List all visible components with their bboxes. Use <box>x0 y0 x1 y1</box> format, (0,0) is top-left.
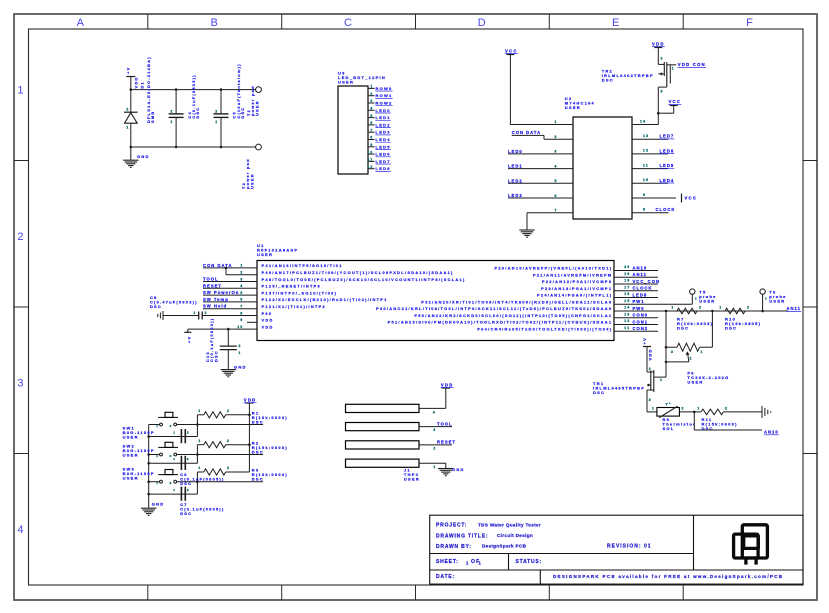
svg-text:PW0: PW0 <box>633 306 645 311</box>
svg-text:USER: USER <box>404 477 420 482</box>
svg-text:DRAWING TITLE:: DRAWING TITLE: <box>436 533 488 539</box>
svg-text:LED6: LED6 <box>660 148 675 153</box>
svg-text:P50/AN22/KR2/SCKD0/SCL00/(SO11: P50/AN22/KR2/SCKD0/SCL00/(SO11)(INTP10/(… <box>414 313 612 318</box>
svg-text:+V: +V <box>642 337 647 345</box>
svg-text:SW Hold: SW Hold <box>203 304 227 309</box>
svg-text:11: 11 <box>368 158 374 162</box>
svg-text:P125/_RESET/INTP6: P125/_RESET/INTP6 <box>262 284 322 289</box>
svg-text:P21/AN11/AVREFM/IVREFM: P21/AN11/AVREFM/IVREFM <box>533 272 612 277</box>
svg-text:4: 4 <box>370 107 373 111</box>
svg-text:4: 4 <box>555 164 558 168</box>
svg-text:5: 5 <box>370 114 373 118</box>
svg-text:VCC: VCC <box>669 99 682 104</box>
svg-text:P40/AN17/PCLBUZ1/TI09/(YCOUT(1: P40/AN17/PCLBUZ1/TI09/(YCOUT(1)/SCL09PXD… <box>262 270 454 275</box>
svg-text:VDD: VDD <box>648 348 653 360</box>
svg-text:6: 6 <box>240 298 243 302</box>
svg-text:DSC: DSC <box>213 350 218 362</box>
svg-text:P60: P60 <box>262 311 273 316</box>
svg-text:P22/AN12/P0A1/IVCMP0: P22/AN12/P0A1/IVCMP0 <box>542 279 612 284</box>
svg-text:9: 9 <box>240 318 243 322</box>
svg-text:P30/ANC21/KRL/TI08/TO0L/INTP6/: P30/ANC21/KRL/TI08/TO0L/INTP6/SCK11/SCL1… <box>376 306 612 311</box>
svg-text:1: 1 <box>173 457 176 461</box>
svg-text:10: 10 <box>367 150 373 154</box>
svg-text:USER: USER <box>254 100 259 116</box>
svg-text:RESET: RESET <box>203 283 222 288</box>
svg-text:USER: USER <box>338 80 354 85</box>
svg-text:USER: USER <box>123 453 139 458</box>
svg-text:LED8: LED8 <box>376 166 391 171</box>
svg-text:2: 2 <box>227 409 230 413</box>
svg-text:USER: USER <box>249 173 254 189</box>
svg-text:6: 6 <box>370 121 373 125</box>
svg-text:LED3: LED3 <box>508 193 523 198</box>
svg-text:LED4: LED4 <box>660 178 675 183</box>
svg-text:14: 14 <box>640 119 646 123</box>
svg-text:DesignSpark PCB: DesignSpark PCB <box>482 544 527 549</box>
svg-text:1: 1 <box>672 66 675 70</box>
svg-text:10: 10 <box>643 178 649 182</box>
svg-text:18: 18 <box>624 279 630 283</box>
svg-text:LED5: LED5 <box>660 163 675 168</box>
svg-text:CON2: CON2 <box>633 326 649 331</box>
svg-text:D1: D1 <box>139 81 144 88</box>
svg-text:12: 12 <box>624 319 630 323</box>
svg-text:1: 1 <box>156 454 159 458</box>
svg-text:GND: GND <box>234 365 247 370</box>
svg-text:P41/AN16/INTP5/SG10/TI01: P41/AN16/INTP5/SG10/TI01 <box>262 263 343 268</box>
svg-text:+V: +V <box>187 336 192 344</box>
svg-text:2: 2 <box>227 466 230 470</box>
svg-text:LED1: LED1 <box>376 115 391 120</box>
svg-text:1: 1 <box>671 305 674 309</box>
svg-text:1: 1 <box>660 378 663 382</box>
svg-text:1: 1 <box>193 311 196 315</box>
svg-text:CLOCK: CLOCK <box>633 286 653 291</box>
svg-text:2: 2 <box>555 135 558 139</box>
svg-text:7: 7 <box>370 128 373 132</box>
svg-text:5: 5 <box>240 291 243 295</box>
svg-text:USER: USER <box>257 252 273 257</box>
svg-text:ROW2: ROW2 <box>376 101 393 106</box>
svg-text:1: 1 <box>215 120 218 124</box>
svg-text:CON DATA: CON DATA <box>203 263 232 268</box>
svg-text:LED0: LED0 <box>376 108 391 113</box>
svg-text:VDD: VDD <box>441 382 454 387</box>
svg-text:VDD: VDD <box>134 76 139 88</box>
svg-text:CLOCK: CLOCK <box>656 207 676 212</box>
svg-text:TOOL: TOOL <box>437 421 453 426</box>
svg-text:1: 1 <box>466 561 470 566</box>
svg-text:7: 7 <box>240 305 243 309</box>
svg-text:DSC: DSC <box>195 107 200 119</box>
svg-text:9: 9 <box>643 193 646 197</box>
svg-text:1: 1 <box>156 481 159 485</box>
svg-text:1: 1 <box>719 305 722 309</box>
svg-text:2: 2 <box>370 92 373 96</box>
svg-text:Circuit Design: Circuit Design <box>497 533 533 538</box>
svg-text:DESIGNSPARK PCB available for: DESIGNSPARK PCB available for FREE at ww… <box>553 574 783 579</box>
svg-text:8: 8 <box>643 208 646 212</box>
svg-text:8: 8 <box>370 136 373 140</box>
svg-text:VCC_CON: VCC_CON <box>633 279 660 284</box>
svg-text:ROW1: ROW1 <box>376 93 393 98</box>
svg-text:3: 3 <box>433 428 436 432</box>
svg-text:DSC: DSC <box>252 420 264 425</box>
svg-text:7: 7 <box>555 209 558 213</box>
svg-text:1: 1 <box>555 120 558 124</box>
svg-text:2: 2 <box>433 447 436 451</box>
svg-text:9: 9 <box>370 143 373 147</box>
svg-text:P48/TOOL0/TO0E/(PCLBUZ0)/SCK10: P48/TOOL0/TO0E/(PCLBUZ0)/SCK10/SCL10/VCO… <box>262 277 466 282</box>
svg-text:2: 2 <box>17 231 24 243</box>
svg-text:DSC: DSC <box>677 325 689 330</box>
svg-text:1: 1 <box>370 85 373 89</box>
svg-text:DSC: DSC <box>240 107 245 119</box>
svg-text:P20/AN10/AVREFP/(VREFL/(A010/T: P20/AN10/AVREFP/(VREFL/(A010/TXD1) <box>494 266 612 271</box>
svg-text:SHEET:: SHEET: <box>436 559 459 565</box>
svg-text:1: 1 <box>652 406 655 410</box>
svg-text:C: C <box>344 17 353 29</box>
svg-text:VDD: VDD <box>244 398 257 403</box>
svg-text:3: 3 <box>649 398 652 402</box>
svg-text:2: 2 <box>215 110 218 114</box>
svg-text:1: 1 <box>17 84 24 96</box>
svg-text:1: 1 <box>173 430 176 434</box>
svg-text:1: 1 <box>173 488 176 492</box>
svg-text:LED7: LED7 <box>660 134 675 139</box>
svg-text:2: 2 <box>170 424 173 428</box>
svg-text:DRAWN BY:: DRAWN BY: <box>436 544 472 550</box>
svg-text:CON0: CON0 <box>633 313 649 318</box>
svg-text:DSC: DSC <box>252 449 264 454</box>
svg-text:1: 1 <box>765 296 768 300</box>
svg-text:20: 20 <box>624 265 630 269</box>
svg-text:DATE:: DATE: <box>436 574 455 580</box>
svg-text:LED4: LED4 <box>376 137 391 142</box>
svg-text:SOL: SOL <box>663 426 675 431</box>
svg-text:8: 8 <box>240 311 243 315</box>
svg-text:P51/AN23/SI00/PM(DK00A10)/TOOL: P51/AN23/SI00/PM(DK00A10)/TOOLRXD/TI02/T… <box>388 320 613 325</box>
svg-text:10: 10 <box>237 325 243 329</box>
svg-text:USER: USER <box>123 435 139 440</box>
svg-text:2: 2 <box>239 344 242 348</box>
svg-text:VCC: VCC <box>685 196 698 201</box>
svg-text:USER: USER <box>123 475 139 480</box>
svg-text:STATUS:: STATUS: <box>516 559 543 565</box>
svg-text:USER: USER <box>699 299 715 304</box>
svg-text:LED2: LED2 <box>508 178 523 183</box>
svg-text:P23/AN13/PGA1/IVCMP1: P23/AN13/PGA1/IVCMP1 <box>541 286 612 291</box>
svg-text:TOOL: TOOL <box>203 277 219 282</box>
svg-text:2: 2 <box>227 439 230 443</box>
svg-text:1: 1 <box>701 350 704 354</box>
svg-text:VDD: VDD <box>262 318 274 323</box>
svg-text:RESET: RESET <box>437 440 456 445</box>
svg-text:1: 1 <box>240 264 243 268</box>
svg-text:4: 4 <box>433 410 436 414</box>
svg-text:1: 1 <box>239 351 242 355</box>
svg-text:USER: USER <box>565 105 581 110</box>
svg-text:1: 1 <box>170 120 173 124</box>
svg-text:GND: GND <box>152 502 165 507</box>
svg-text:DSC: DSC <box>252 477 264 482</box>
svg-text:SMB: SMB <box>150 111 155 123</box>
svg-text:2: 2 <box>126 108 129 112</box>
svg-text:2: 2 <box>682 406 685 410</box>
svg-text:1: 1 <box>433 465 436 469</box>
svg-text:SW PowerOn: SW PowerOn <box>203 290 239 295</box>
svg-text:LED0: LED0 <box>508 149 523 154</box>
svg-text:3: 3 <box>671 350 674 354</box>
svg-text:LED7: LED7 <box>376 159 391 164</box>
svg-text:11: 11 <box>643 163 649 167</box>
svg-text:3: 3 <box>555 150 558 154</box>
svg-text:DSC: DSC <box>602 78 614 83</box>
svg-text:E: E <box>612 17 621 29</box>
svg-text:CON DATA: CON DATA <box>512 130 541 135</box>
svg-text:19: 19 <box>624 272 630 276</box>
svg-text:13: 13 <box>624 312 630 316</box>
svg-text:3: 3 <box>17 377 24 389</box>
svg-text:2: 2 <box>661 57 664 61</box>
svg-text:T°: T° <box>666 403 672 407</box>
svg-text:LED8: LED8 <box>633 292 648 297</box>
svg-text:1: 1 <box>198 439 201 443</box>
svg-text:P64/CR4/Re05/TxD0/TOOLTXD/(TI0: P64/CR4/Re05/TxD0/TOOLTXD/(TI003)/(TO04) <box>477 326 612 331</box>
svg-text:4: 4 <box>17 524 24 536</box>
svg-text:LED3: LED3 <box>376 130 391 135</box>
svg-text:P31/AN20/XR/TI01/TO09/INT4/TK8: P31/AN20/XR/TI01/TO09/INT4/TK809/(RxD9)/… <box>421 299 612 304</box>
svg-text:2: 2 <box>725 406 728 410</box>
svg-text:12: 12 <box>643 149 649 153</box>
svg-text:B: B <box>210 17 219 29</box>
svg-text:5: 5 <box>555 179 558 183</box>
svg-text:16: 16 <box>624 292 630 296</box>
svg-text:2: 2 <box>205 311 208 315</box>
svg-text:AN10: AN10 <box>764 430 779 435</box>
svg-text:LED6: LED6 <box>376 152 391 157</box>
svg-text:1: 1 <box>479 561 483 566</box>
svg-text:1: 1 <box>697 406 700 410</box>
svg-text:AN10: AN10 <box>633 265 648 270</box>
svg-text:DSC: DSC <box>593 390 605 395</box>
svg-text:6: 6 <box>555 194 558 198</box>
svg-text:2: 2 <box>170 454 173 458</box>
svg-text:VDD: VDD <box>262 324 274 329</box>
svg-text:1: 1 <box>198 466 201 470</box>
svg-text:1: 1 <box>198 409 201 413</box>
svg-text:14: 14 <box>624 306 630 310</box>
svg-text:11: 11 <box>624 326 630 330</box>
svg-text:DSC: DSC <box>150 304 162 309</box>
svg-text:3: 3 <box>370 99 373 103</box>
svg-text:+V: +V <box>126 66 131 74</box>
svg-text:LED5: LED5 <box>376 144 391 149</box>
svg-text:1: 1 <box>695 296 698 300</box>
svg-text:USER: USER <box>769 299 785 304</box>
svg-text:13: 13 <box>643 134 649 138</box>
svg-text:DSC: DSC <box>180 481 192 486</box>
svg-text:F: F <box>746 17 754 29</box>
svg-text:2: 2 <box>747 305 750 309</box>
svg-text:1: 1 <box>126 125 129 129</box>
svg-text:17: 17 <box>624 285 630 289</box>
svg-text:2: 2 <box>187 430 190 434</box>
svg-text:3: 3 <box>240 277 243 281</box>
svg-text:2: 2 <box>187 488 190 492</box>
svg-text:P122/X2/EXCLK/(B210)/RxD1/(TI0: P122/X2/EXCLK/(B210)/RxD1/(TI02)/INTP1 <box>262 297 388 302</box>
svg-text:4: 4 <box>240 284 243 288</box>
svg-text:2: 2 <box>699 305 702 309</box>
svg-text:1: 1 <box>156 424 159 428</box>
svg-text:VCC: VCC <box>505 48 518 53</box>
svg-text:PW1: PW1 <box>633 299 645 304</box>
svg-text:LED1: LED1 <box>508 164 523 169</box>
svg-text:TDS Water Quality Tester: TDS Water Quality Tester <box>478 522 541 527</box>
svg-text:LED2: LED2 <box>376 122 391 127</box>
svg-text:GND: GND <box>452 467 465 472</box>
svg-text:VDD: VDD <box>652 41 665 46</box>
svg-text:P121/X1/(TI01)/INTP2: P121/X1/(TI01)/INTP2 <box>262 304 327 309</box>
svg-text:DSC: DSC <box>180 511 192 516</box>
svg-text:PROJECT:: PROJECT: <box>436 523 467 529</box>
svg-text:2: 2 <box>170 481 173 485</box>
svg-text:3: 3 <box>661 89 664 93</box>
svg-text:GND: GND <box>137 154 150 159</box>
svg-text:2: 2 <box>240 271 243 275</box>
svg-text:A: A <box>77 17 86 29</box>
svg-text:VDD CON: VDD CON <box>678 62 706 67</box>
svg-text:2: 2 <box>690 357 693 361</box>
svg-text:P137/INTP0/_SG10/(TI06): P137/INTP0/_SG10/(TI06) <box>262 290 338 295</box>
svg-text:P24/AN14/PGA0/(INTPL1): P24/AN14/PGA0/(INTPL1) <box>537 293 612 298</box>
svg-text:USER: USER <box>687 380 703 385</box>
svg-text:D: D <box>478 17 487 29</box>
svg-text:ROW0: ROW0 <box>376 86 393 91</box>
svg-text:AN11: AN11 <box>633 272 647 277</box>
svg-text:12: 12 <box>367 165 373 169</box>
svg-text:CON1: CON1 <box>633 319 649 324</box>
svg-text:15: 15 <box>624 299 630 303</box>
svg-text:AN11: AN11 <box>787 306 801 311</box>
svg-text:SW Temp: SW Temp <box>203 297 229 302</box>
svg-text:2: 2 <box>170 110 173 114</box>
svg-text:DSC: DSC <box>725 325 737 330</box>
svg-text:REVISION: 01: REVISION: 01 <box>607 544 652 550</box>
svg-text:2: 2 <box>649 367 652 371</box>
svg-text:2: 2 <box>187 457 190 461</box>
